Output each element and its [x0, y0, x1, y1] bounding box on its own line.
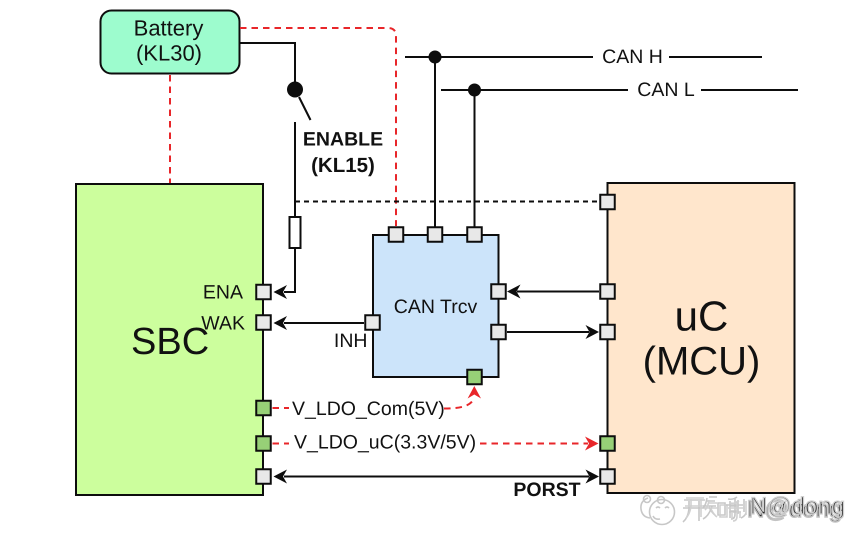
svg-text:ENABLE: ENABLE [303, 129, 383, 151]
svg-text:CAN H: CAN H [602, 46, 663, 68]
svg-text:CAN Trcv: CAN Trcv [394, 296, 478, 318]
svg-text:PORST: PORST [513, 479, 580, 501]
svg-text:SBC: SBC [131, 321, 209, 363]
svg-text:(KL15): (KL15) [311, 154, 375, 177]
svg-text:Battery: Battery [134, 16, 204, 41]
svg-text:uC: uC [675, 293, 729, 340]
svg-text:V_LDO_uC(3.3V/5V): V_LDO_uC(3.3V/5V) [294, 432, 476, 454]
svg-text:ENA: ENA [203, 282, 243, 304]
svg-text:N@dong: N@dong [750, 493, 845, 520]
svg-text:(MCU): (MCU) [643, 340, 761, 384]
svg-text:INH: INH [334, 330, 368, 352]
svg-text:CAN L: CAN L [637, 79, 695, 101]
svg-text:(KL30): (KL30) [136, 41, 202, 66]
svg-text:V_LDO_Com(5V): V_LDO_Com(5V) [292, 398, 445, 420]
